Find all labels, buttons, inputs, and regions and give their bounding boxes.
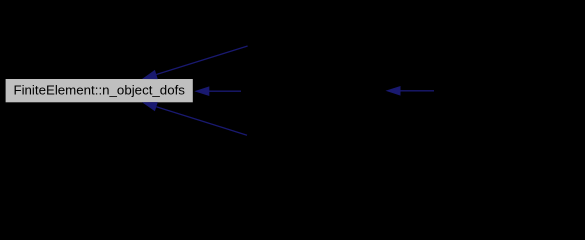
edge arrow 2 (horizontal from middle caller to node right edge) <box>194 86 241 96</box>
edge arrow 4 (far-right short horizontal between hidden nodes) <box>386 86 435 96</box>
node FiniteElement::n_object_dofs (highlighted box) <box>6 79 193 102</box>
svg-text:FiniteElement::n_object_dofs: FiniteElement::n_object_dofs <box>13 82 185 97</box>
edge arrow 1 (from upper-right caller to node top) <box>142 46 248 79</box>
edge arrow 3 (from lower-right caller to node bottom) <box>142 102 247 135</box>
